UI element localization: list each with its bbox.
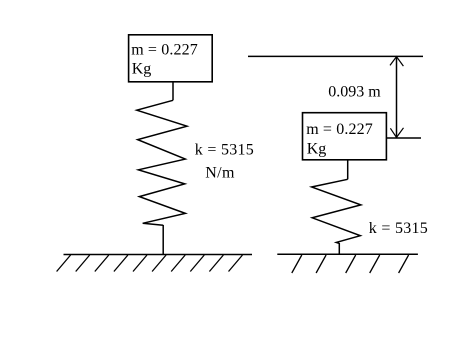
svg-text:0.093 m: 0.093 m <box>328 83 381 100</box>
svg-text:m = 0.227: m = 0.227 <box>131 41 198 58</box>
svg-text:k = 5315: k = 5315 <box>369 220 428 237</box>
svg-text:Kg: Kg <box>132 61 152 78</box>
svg-text:Kg: Kg <box>307 140 327 157</box>
svg-text:m = 0.227: m = 0.227 <box>306 121 373 138</box>
svg-text:N/m: N/m <box>205 165 235 182</box>
svg-text:k = 5315: k = 5315 <box>195 141 254 158</box>
